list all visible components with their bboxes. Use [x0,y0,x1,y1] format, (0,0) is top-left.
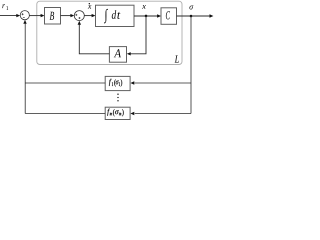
label L [175,56,179,63]
label r1 [2,4,8,10]
wire B to S2 [61,15,72,17]
summing junction S1 [20,11,29,20]
vertical ellipsis [117,94,118,95]
wire integrator to C [134,15,158,17]
wire x node down to A [130,16,146,54]
block B [45,8,61,25]
label sigma [189,5,193,9]
wire A to S2 bottom [79,24,109,54]
branch to f1 [135,82,191,84]
block f1 [105,76,130,90]
node x dot [145,15,148,18]
wire f1 to left vertical [25,82,105,84]
integrator block [96,5,135,26]
label x [142,5,146,9]
label xdot [88,5,92,9]
summing junction S2 [74,11,84,21]
wire S1 to B [29,15,41,17]
block C [161,8,177,25]
enclosure box L [37,1,182,64]
node sigma dot [190,15,193,18]
branch to fm [135,113,191,115]
right feedback vertical [190,16,192,114]
wire fm to left vertical [25,113,105,115]
left feedback vertical [24,24,26,114]
wire S2 to integrator [84,15,92,17]
wire C to output [177,15,210,17]
block A [109,47,126,63]
wire r1 to S1 [0,15,17,17]
block fm [105,107,130,119]
